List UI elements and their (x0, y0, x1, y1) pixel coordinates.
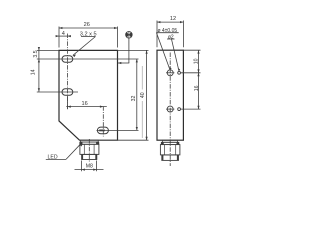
optical axis arrow (118, 62, 121, 64)
side centerline (169, 53, 171, 167)
top edge extension right (183, 49, 200, 51)
dim 26 (59, 27, 62, 29)
lens hole horizontal centerline / 32 bottom extension (97, 129, 139, 131)
side connector nut (160, 145, 180, 155)
M8 dimension (81, 161, 83, 172)
slot2 centerline horizontal (37, 91, 78, 93)
top edge extension left (37, 49, 59, 51)
M8 arrows (82, 169, 85, 171)
lens slot hole (97, 127, 108, 134)
svg-text:3.2 x 5: 3.2 x 5 (80, 31, 97, 37)
svg-text:3.5: 3.5 (33, 50, 39, 57)
svg-text:LED: LED (48, 155, 58, 161)
optical axis leader (128, 38, 130, 63)
slot vertical centerline (66, 34, 68, 110)
dimension 12 (156, 21, 158, 48)
extension row1 right (181, 72, 201, 74)
optical axis symbol (126, 31, 133, 38)
front connector neck (80, 140, 98, 142)
3.2x5 leader arrow (73, 54, 76, 57)
front connector centerline (88, 139, 90, 162)
hole ø2 row2 (178, 108, 181, 111)
lens slot inner bar (99, 129, 105, 131)
dim 16 (67, 106, 70, 108)
lens hole vertical centerline (102, 106, 104, 136)
LED leader arrow (80, 144, 83, 147)
dim 3.5 outside (38, 47, 40, 50)
front connector LED block left (80, 142, 83, 145)
hole ø2 row1 (178, 71, 181, 74)
slot centerline horizontal (3.5/14/32 extension) (37, 58, 139, 60)
LED leader (46, 158, 66, 160)
ø4 leader arrow (170, 66, 172, 70)
svg-text:40: 40 (140, 92, 146, 98)
svg-text:10: 10 (193, 58, 199, 64)
hole labels leaders (155, 32, 157, 34)
dimension 40 line (146, 50, 148, 140)
svg-text:4: 4 (62, 31, 65, 37)
front connector LED block right (96, 142, 99, 145)
ø2 leader arrow (178, 68, 181, 71)
top edge extension to 40-dim (118, 49, 149, 51)
svg-text:32: 32 (131, 96, 137, 102)
svg-text:14: 14 (30, 69, 36, 75)
bottom edge extension to 40-dim (118, 139, 149, 141)
slot hole 3.2x5 #1 (62, 56, 73, 62)
side connector neck (163, 140, 178, 142)
dimension 26 (58, 27, 60, 48)
left dim line 3.5 / 14 (38, 47, 40, 91)
slot hole 3.2x5 #2 (62, 89, 73, 95)
mystery faint line (141, 66, 143, 90)
svg-text:12: 12 (170, 16, 176, 22)
side connector flange (161, 142, 179, 144)
dim 10 (197, 50, 199, 53)
dim 4 outside (56, 35, 59, 37)
svg-text:ø2: ø2 (168, 34, 174, 40)
svg-text:16: 16 (194, 85, 200, 91)
dimension 10/16 line (198, 50, 200, 109)
dim 12 (157, 21, 160, 23)
label 3.2x5 leader (73, 37, 96, 56)
front connector nut (80, 144, 99, 154)
hole ø4 row2 (167, 106, 173, 112)
front view body outline (59, 50, 118, 140)
dim 40 (146, 50, 148, 53)
dimension 16 (66, 106, 107, 108)
dim 16 side (197, 73, 199, 76)
dimension 32 line (136, 59, 138, 130)
dim 14 (38, 59, 40, 62)
front connector thread (82, 154, 97, 159)
side view body outline (157, 50, 183, 140)
hole ø4 row1 (167, 70, 173, 76)
arrowheads (38, 21, 200, 171)
svg-text:M8: M8 (86, 163, 93, 169)
extension row2 right (181, 108, 201, 110)
svg-text:ø 4±0.05: ø 4±0.05 (157, 28, 177, 34)
dimension 4 (56, 35, 71, 37)
svg-text:26: 26 (84, 22, 90, 28)
front connector flange (80, 142, 99, 144)
side connector thread (162, 155, 179, 161)
dim 32 (136, 59, 138, 62)
svg-text:16: 16 (81, 101, 87, 107)
